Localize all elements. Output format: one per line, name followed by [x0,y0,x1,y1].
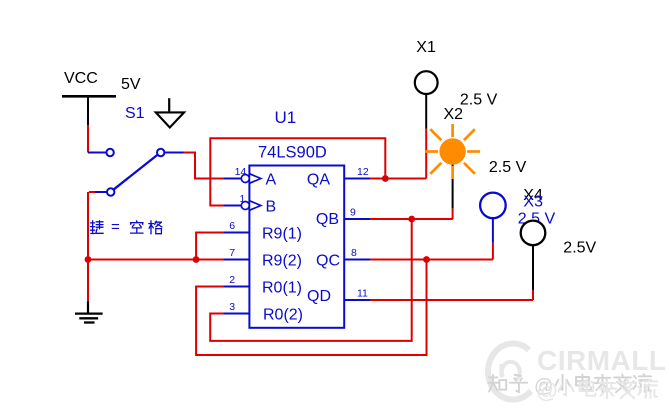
svg-text:2.5 V: 2.5 V [460,92,498,109]
svg-text:8: 8 [351,247,357,259]
svg-text:R9(1): R9(1) [262,225,302,242]
svg-text:74LS90D: 74LS90D [258,144,327,162]
svg-text:A: A [266,171,277,188]
svg-text:R9(2): R9(2) [262,252,302,269]
svg-text:B: B [266,198,277,215]
svg-text:U1: U1 [275,108,297,127]
svg-text:QB: QB [316,211,339,228]
svg-text:2.5 V: 2.5 V [489,159,527,176]
svg-text:R0(1): R0(1) [262,279,302,296]
svg-text:R0(2): R0(2) [263,306,303,323]
svg-text:QC: QC [316,252,340,269]
svg-text:12: 12 [357,166,369,178]
svg-text:X2: X2 [444,106,464,123]
svg-text:9: 9 [350,207,356,219]
svg-text:X1: X1 [416,39,436,56]
svg-text:X3: X3 [523,193,543,210]
svg-text:@: @ [536,378,558,403]
svg-text:QD: QD [307,288,331,305]
svg-text:2.5V: 2.5V [563,239,596,256]
svg-text:14: 14 [235,166,247,178]
svg-text:11: 11 [357,288,368,300]
svg-text:2: 2 [229,274,235,286]
svg-text:5V: 5V [121,76,141,93]
svg-text:CIRMALL: CIRMALL [537,345,666,376]
svg-text:VCC: VCC [64,70,98,87]
svg-text:1: 1 [240,193,246,205]
svg-text:S1: S1 [125,105,145,122]
svg-text:QA: QA [307,171,330,188]
svg-text:3: 3 [229,301,235,313]
svg-text:=: = [111,219,120,236]
svg-text:6: 6 [229,220,235,232]
svg-text:7: 7 [229,247,235,259]
